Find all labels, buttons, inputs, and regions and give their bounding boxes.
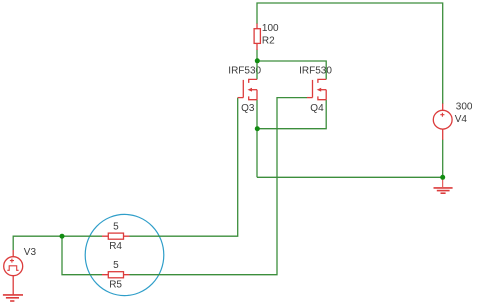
wire node C to R4 left — [62, 235, 102, 237]
svg-text:5: 5 — [113, 260, 119, 271]
svg-text:R2: R2 — [262, 36, 275, 47]
svg-text:V3: V3 — [24, 247, 37, 258]
svg-text:100: 100 — [262, 23, 279, 34]
wire R5 right to Q4 gate — [130, 98, 308, 275]
voltage source V4 — [433, 104, 452, 140]
svg-text:R4: R4 — [109, 241, 122, 252]
wire top rail from R2 top to V4 top — [257, 3, 443, 104]
node D junction dot (bottom rail / V4 / ground) — [440, 175, 445, 180]
node B junction dot (Q3 source / Q4 source) — [255, 126, 260, 131]
voltage source V3 (pulse) — [4, 250, 23, 295]
svg-text:300: 300 — [456, 101, 473, 112]
resistor R4 — [102, 233, 130, 239]
svg-text:Q3: Q3 — [241, 103, 255, 114]
ground below V4 — [434, 177, 453, 193]
wire R2 bottom to node A — [256, 50, 258, 62]
resistor R2 — [254, 24, 260, 51]
svg-text:5: 5 — [113, 221, 119, 232]
wire V3 top to node C — [13, 236, 62, 250]
wire V4 bottom to ground node — [442, 140, 444, 178]
svg-text:Q4: Q4 — [310, 103, 324, 114]
wire node C down to R5 left — [62, 236, 102, 275]
svg-text:IRF530: IRF530 — [299, 65, 332, 76]
wire Q4 source to node B — [257, 100, 326, 129]
node C junction dot (V3 / R4 / R5) — [60, 234, 65, 239]
resistor R5 — [102, 272, 130, 278]
wire bottom rail to ground node — [257, 176, 443, 178]
ground below V3 — [3, 295, 23, 301]
transistor Q3 — [238, 79, 257, 99]
wire R4 right to Q3 gate — [130, 98, 238, 237]
svg-text:R5: R5 — [109, 280, 122, 291]
transistor Q4 — [307, 79, 326, 99]
annotation highlight circle around R4/R5 — [85, 214, 164, 295]
svg-text:V4: V4 — [455, 114, 468, 125]
wire Q3 source down to bottom rail — [256, 100, 258, 178]
wire node A to Q3 drain — [256, 61, 258, 79]
node A junction dot (R2 / Q3 / Q4 drains) — [255, 58, 260, 63]
wire node A to Q4 drain — [257, 61, 326, 79]
